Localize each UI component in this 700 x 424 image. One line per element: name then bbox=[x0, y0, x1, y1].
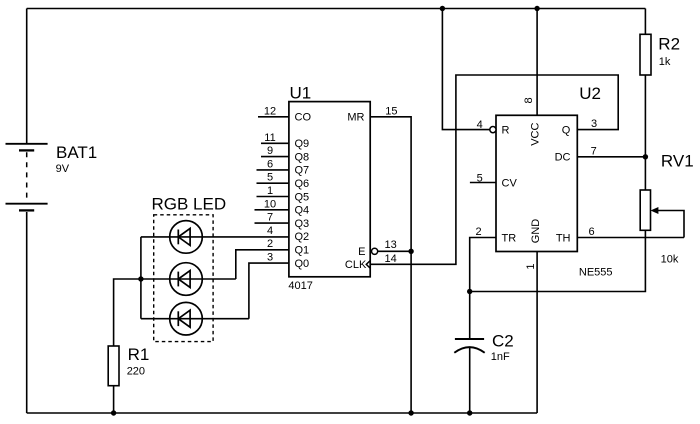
wire LED3 row bbox=[141, 318, 249, 320]
svg-text:220: 220 bbox=[127, 365, 145, 377]
U2 CV pin 5 stub bbox=[470, 182, 496, 184]
svg-text:U1: U1 bbox=[290, 84, 312, 103]
node MR/ground bbox=[408, 410, 413, 415]
wire battery positive riser bbox=[26, 9, 28, 144]
resistor R2 bbox=[640, 34, 651, 75]
wire R1 to ground rail bbox=[113, 386, 115, 413]
U2 pin numbers bbox=[475, 97, 597, 269]
potentiometer RV1 body bbox=[640, 190, 650, 230]
wire bottom ground rail bbox=[27, 412, 537, 414]
svg-text:9: 9 bbox=[267, 145, 273, 157]
svg-text:NE555: NE555 bbox=[579, 266, 613, 278]
wire top rail VCC bbox=[27, 8, 646, 10]
junction node dots bbox=[111, 6, 648, 416]
svg-text:Q9: Q9 bbox=[295, 138, 310, 150]
svg-text:R1: R1 bbox=[128, 345, 150, 364]
wire E pin 13 bbox=[378, 250, 411, 252]
wire RV1 bottom to TH and TR link bbox=[470, 230, 646, 291]
wire LED3 to U1 Q0 pin 3 bbox=[249, 263, 289, 319]
svg-text:RGB LED: RGB LED bbox=[152, 195, 227, 214]
svg-text:BAT1: BAT1 bbox=[56, 143, 97, 162]
node R1/ground bbox=[111, 410, 116, 415]
IC U2 NE555 box bbox=[496, 115, 577, 251]
svg-text:14: 14 bbox=[384, 253, 396, 265]
U1 E pin 13 bubble bbox=[372, 248, 378, 254]
svg-text:1: 1 bbox=[267, 185, 273, 197]
wire LED1 row to U1 Q2 pin 4 bbox=[141, 236, 289, 238]
U1 pin names bbox=[295, 112, 367, 272]
svg-text:RV1: RV1 bbox=[661, 152, 694, 171]
svg-text:VCC: VCC bbox=[530, 123, 542, 146]
U1 CLK pin 14 chevron bbox=[366, 260, 370, 268]
node E/MR bbox=[408, 249, 413, 254]
svg-text:Q2: Q2 bbox=[295, 231, 310, 243]
wire GND pin 1 bbox=[536, 252, 538, 414]
svg-text:Q4: Q4 bbox=[295, 205, 310, 217]
svg-text:12: 12 bbox=[264, 105, 276, 117]
svg-text:1nF: 1nF bbox=[491, 351, 510, 363]
svg-text:11: 11 bbox=[264, 132, 275, 144]
svg-text:5: 5 bbox=[267, 172, 273, 184]
svg-text:4: 4 bbox=[477, 119, 483, 131]
svg-text:E: E bbox=[358, 246, 365, 258]
resistor R1 bbox=[108, 346, 119, 386]
svg-text:CLK: CLK bbox=[345, 259, 367, 271]
svg-text:Q1: Q1 bbox=[295, 245, 310, 257]
svg-text:Q7: Q7 bbox=[295, 165, 310, 177]
wire LED2 row bbox=[141, 278, 236, 280]
svg-text:5: 5 bbox=[477, 173, 483, 185]
wire U1 MR pin 15 to E junction and ground bbox=[370, 117, 411, 413]
U1 pin numbers bbox=[264, 105, 398, 264]
svg-text:Q6: Q6 bbox=[295, 178, 310, 190]
IC U1 4017 box bbox=[289, 102, 370, 277]
U1 pin 6 Q7 stub bbox=[257, 169, 289, 171]
capacitor C2 bbox=[454, 339, 484, 353]
LED cathode bus bbox=[140, 237, 142, 319]
U1 pin 7 Q3 stub bbox=[255, 222, 289, 224]
svg-text:Q0: Q0 bbox=[295, 258, 310, 270]
U1 pin 10 Q4 stub bbox=[255, 209, 289, 211]
svg-text:GND: GND bbox=[530, 219, 542, 244]
svg-text:Q3: Q3 bbox=[295, 218, 310, 230]
capacitor C2 top wire bbox=[469, 292, 471, 340]
U2 R pin 4 bubble bbox=[490, 127, 496, 133]
svg-text:7: 7 bbox=[267, 212, 273, 224]
U1 pin 12 CO stub bbox=[258, 116, 289, 118]
node rail/R-pin bbox=[440, 6, 445, 11]
svg-text:R2: R2 bbox=[658, 35, 680, 54]
svg-text:4017: 4017 bbox=[288, 280, 312, 292]
wire bus to R1 bbox=[114, 279, 141, 346]
node DC/R2/RV1 bbox=[643, 154, 648, 159]
wire RV1 wiper bbox=[658, 211, 685, 238]
battery BAT1 bbox=[6, 144, 48, 211]
wire VCC pin 8 bbox=[536, 9, 538, 116]
svg-text:Q5: Q5 bbox=[295, 191, 310, 203]
node C2/ground bbox=[467, 410, 472, 415]
wire R2 to DC node bbox=[644, 75, 646, 157]
LED D2 bbox=[170, 263, 203, 296]
svg-text:3: 3 bbox=[267, 252, 273, 264]
svg-text:10k: 10k bbox=[661, 254, 679, 266]
node rail/VCC bbox=[534, 6, 539, 11]
svg-text:Q: Q bbox=[562, 124, 571, 136]
node TR link bbox=[467, 289, 472, 294]
svg-text:8: 8 bbox=[523, 97, 535, 103]
svg-text:CV: CV bbox=[502, 177, 518, 189]
svg-text:CO: CO bbox=[295, 112, 312, 124]
svg-text:7: 7 bbox=[591, 146, 597, 158]
RV1 wiper arrowhead bbox=[651, 207, 659, 214]
wire R pin 4 to VCC rail bbox=[442, 9, 489, 130]
svg-text:Q8: Q8 bbox=[295, 151, 310, 163]
wire rail to R2 bbox=[644, 9, 646, 35]
svg-text:MR: MR bbox=[347, 112, 364, 124]
svg-text:15: 15 bbox=[385, 105, 397, 117]
RGB LED dashed enclosure bbox=[154, 215, 213, 342]
LED D3 bbox=[170, 302, 203, 335]
svg-text:3: 3 bbox=[591, 118, 597, 130]
svg-text:6: 6 bbox=[267, 158, 273, 170]
wire C2 to ground rail bbox=[469, 347, 471, 414]
node bus/LED2 bbox=[138, 276, 143, 281]
svg-text:13: 13 bbox=[384, 239, 396, 251]
U2 pin names bbox=[502, 123, 571, 245]
U1 pin 11 Q9 stub bbox=[261, 142, 289, 144]
svg-text:2: 2 bbox=[475, 226, 481, 238]
svg-text:10: 10 bbox=[264, 198, 276, 210]
svg-text:R: R bbox=[502, 124, 510, 136]
U1 pin 5 Q6 stub bbox=[257, 182, 289, 184]
wire battery negative drop bbox=[26, 212, 28, 413]
svg-text:C2: C2 bbox=[492, 331, 514, 350]
wire TH pin 6 bbox=[577, 237, 684, 239]
svg-text:DC: DC bbox=[555, 152, 571, 164]
U1 pin 1 Q5 stub bbox=[257, 196, 289, 198]
wire DC pin 7 bbox=[577, 156, 645, 158]
svg-text:TR: TR bbox=[502, 232, 517, 244]
svg-text:1k: 1k bbox=[659, 56, 671, 68]
wire CLK pin 14 to U2 Q pin 3 bbox=[370, 75, 618, 264]
svg-text:2: 2 bbox=[267, 238, 273, 250]
svg-text:4: 4 bbox=[267, 225, 273, 237]
svg-text:TH: TH bbox=[556, 232, 571, 244]
U1 pin 9 Q8 stub bbox=[261, 156, 289, 158]
wire LED2 to U1 Q1 pin 2 bbox=[236, 250, 289, 279]
svg-text:9V: 9V bbox=[56, 163, 70, 175]
wire TR pin 2 bbox=[470, 238, 496, 292]
wire DC node to RV1 top bbox=[644, 157, 646, 190]
LED D1 bbox=[170, 221, 203, 254]
svg-text:6: 6 bbox=[589, 226, 595, 238]
svg-text:1: 1 bbox=[525, 264, 537, 270]
svg-text:U2: U2 bbox=[579, 84, 601, 103]
